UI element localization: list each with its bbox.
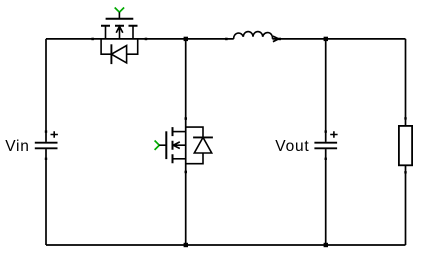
L1 left terminal nub xyxy=(225,38,228,41)
Q2 terminal nubs xyxy=(185,117,188,120)
Q1 body diode cathode bar xyxy=(110,44,112,64)
transistor Q2 (low-side MOSFET, vertical) xyxy=(155,117,213,173)
L1 current direction arrow xyxy=(273,36,279,42)
wire: left rail (Vin branch) xyxy=(45,39,47,245)
Q1 body diode loop wires xyxy=(101,39,138,54)
L1 winding xyxy=(234,32,273,39)
Q2 body diode triangle xyxy=(194,137,211,153)
wire: Vout branch vertical xyxy=(325,39,327,245)
Q2 body leg with arrow xyxy=(173,142,186,149)
C2 terminal nubs xyxy=(325,130,327,132)
Q2 body diode cathode bar xyxy=(193,136,213,138)
Q1 source leg xyxy=(132,26,134,39)
svg-text:Vin: Vin xyxy=(5,138,30,155)
wire: right rail (load branch) xyxy=(405,39,407,245)
capacitor C1 (input cap) xyxy=(35,130,58,160)
Q2 channel caps xyxy=(172,127,174,163)
C1 polarity plus xyxy=(51,131,58,138)
Q1 body leg with arrow xyxy=(116,26,123,39)
Q2 drain leg xyxy=(173,131,186,133)
R1 terminal nubs xyxy=(404,117,406,119)
Q1 body diode triangle xyxy=(111,46,126,63)
Q1 gate lead xyxy=(118,12,120,19)
node: junction dot bottom middle xyxy=(184,243,188,247)
resistor R1 (load, box style) xyxy=(399,117,412,173)
Q1 drain leg xyxy=(105,26,107,39)
Q1 gate bar xyxy=(106,18,134,20)
C2 plates xyxy=(314,143,337,149)
wire: top rail xyxy=(46,38,406,40)
Q2 gate port marker (green >) xyxy=(155,141,160,150)
transistor Q1 (high-side MOSFET, horizontal) xyxy=(91,8,147,65)
svg-text:Vout: Vout xyxy=(275,138,309,155)
Q1 gate port marker (green Y) xyxy=(115,8,124,13)
node: junction dot at switch node (top) xyxy=(184,37,188,41)
C2 polarity plus xyxy=(330,131,337,138)
Q1 terminal nubs xyxy=(91,38,94,41)
wire: bottom rail xyxy=(46,244,406,246)
capacitor C2 (output cap) xyxy=(314,130,337,160)
L1 right terminal nub xyxy=(279,38,282,41)
wire: middle vertical (switch node to ground) xyxy=(185,39,187,245)
R1 body xyxy=(399,126,412,165)
Q2 gate lead xyxy=(159,144,166,146)
C1 terminal nubs xyxy=(45,130,47,132)
Q1 channel caps xyxy=(101,25,138,27)
node: junction dot at Vout (top) xyxy=(324,37,328,41)
inductor L1 xyxy=(225,32,281,42)
Q2 body diode loop wires xyxy=(186,127,203,164)
C1 plates xyxy=(35,143,58,149)
Q2 gate bar xyxy=(165,131,167,159)
Q2 source leg xyxy=(173,158,186,160)
node: junction dot bottom Vout xyxy=(324,243,328,247)
